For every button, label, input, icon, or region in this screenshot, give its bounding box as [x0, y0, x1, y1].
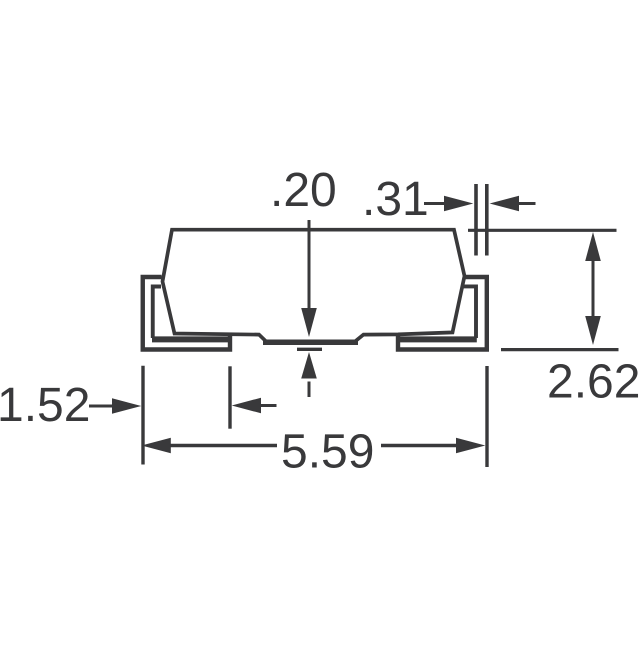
svg-text:5.59: 5.59 [281, 426, 374, 479]
bottom-left extension line [141, 366, 144, 465]
left lead inner foot [152, 336, 230, 342]
2.62 top extension line [468, 229, 617, 232]
.31 left arrowhead [490, 196, 519, 212]
.31 extension line inner [474, 184, 478, 256]
.31 extension line outer [485, 184, 489, 256]
5.59 dimension line right segment [381, 444, 458, 447]
5.59 dimension line left segment [168, 444, 277, 447]
right lead outer profile [398, 277, 487, 350]
package body outline [163, 230, 465, 343]
1.52 leader line [89, 405, 115, 408]
seating plane tick [297, 348, 322, 351]
2.62 down arrowhead [585, 316, 601, 345]
right lead inner foot [398, 336, 477, 342]
svg-text:2.62: 2.62 [547, 356, 640, 409]
dimension .31 leader line (right) [424, 202, 448, 205]
left lead inner profile [153, 287, 161, 339]
2.62 dimension line [592, 259, 595, 318]
1.52 left-arrow tail [259, 404, 277, 407]
body bottom centre face [263, 340, 358, 346]
dimension .20 leader line (down) [308, 220, 311, 312]
lead-end extension line [228, 366, 231, 428]
.31 left-arrow tail [517, 202, 536, 205]
.31 right arrowhead [444, 196, 473, 212]
svg-text:.31: .31 [362, 173, 429, 226]
svg-text:.20: .20 [270, 164, 337, 217]
1.52 left arrowhead [232, 398, 261, 414]
left lead outer profile [143, 277, 230, 350]
5.59 left arrowhead [142, 438, 171, 454]
2.62 bottom extension line [501, 348, 619, 351]
5.59 right arrowhead [456, 438, 485, 454]
1.52 right arrowhead [112, 398, 141, 414]
2.62 up arrowhead [585, 232, 601, 261]
right lead inner profile [463, 286, 476, 338]
.20 up arrowhead [301, 352, 317, 379]
svg-text:1.52: 1.52 [0, 379, 90, 432]
bottom-right extension line [485, 366, 488, 467]
.20 down arrowhead [301, 308, 317, 337]
dimension .20 up-arrow tail [308, 382, 311, 398]
